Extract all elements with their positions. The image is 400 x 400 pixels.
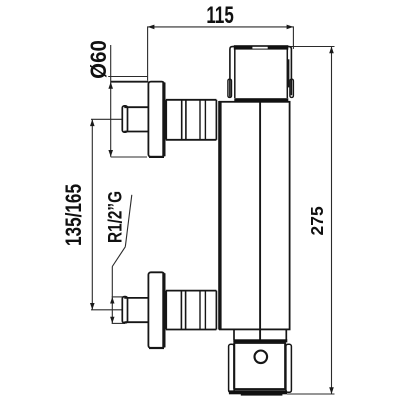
outlet bottom lip [241, 394, 283, 396]
lower inlet pipe stub top edge [124, 297, 148, 299]
upper union nut vertical line 2 [185, 100, 187, 140]
lower union nut top edge [166, 290, 217, 292]
upper union nut end line [215, 100, 217, 140]
upper union nut bottom edge [166, 139, 217, 141]
svg-text:135/165: 135/165 [62, 184, 86, 246]
dimension D60 bottom extension line [111, 156, 147, 158]
knob right side tab [290, 79, 294, 97]
dimension R1/2"G top arrow [110, 297, 114, 304]
dimension 115 right extension line [292, 26, 294, 49]
dimension D60 line [110, 45, 112, 157]
dimension D60 bottom arrow [108, 150, 113, 157]
upper wall flange thick right edge [162, 83, 165, 157]
lower union nut vertical line 4 [204, 291, 206, 330]
lower union nut vertical line 1 [180, 291, 182, 330]
neck middle line [259, 329, 261, 339]
lower inlet end cap [122, 297, 127, 323]
outlet circle port [254, 351, 267, 364]
dimension R1/2"G leader slanted segment beside text [125, 195, 132, 247]
knob outer shell (open at bottom) [230, 47, 292, 97]
dimension 135/165 text [62, 184, 86, 246]
knob inner left line [234, 49, 236, 98]
dimension 115 left extension line [147, 26, 149, 80]
outlet left side strip [229, 344, 235, 392]
lower union nut bottom edge [166, 329, 217, 331]
mixer body outline [220, 102, 290, 330]
lower wall flange [148, 272, 164, 348]
outlet right side strip [286, 344, 292, 392]
upper union nut vertical line 1 [181, 100, 183, 140]
dimension 275 top arrow [329, 47, 334, 54]
upper union nut vertical line 4 [204, 100, 206, 140]
dimension 115 right arrow [287, 25, 294, 30]
dimension 275 line [331, 47, 333, 395]
dimension R1/2"G leader vertical [111, 267, 113, 324]
outlet bottom dark band [229, 390, 287, 394]
upper inlet end cap [122, 106, 127, 132]
dimension R1/2"G bottom arrow [110, 317, 114, 324]
svg-text:115: 115 [206, 3, 233, 29]
upper union nut vertical line 3 [199, 100, 201, 140]
lower union nut vertical line 2 [185, 291, 187, 330]
dimension R1/2"G text [104, 191, 126, 243]
upper union nut chamfer band at flange [163, 99, 168, 141]
mixer body thick left edge [218, 101, 221, 330]
upper inlet pipe stub top edge [124, 106, 148, 108]
dimension 135/165 top arrow [90, 119, 95, 126]
dimension R1/2"G leader diagonal [112, 247, 125, 267]
dimension 115 line [148, 26, 294, 28]
knob inner right line [286, 49, 288, 98]
lower union nut chamfer band at flange [163, 290, 168, 331]
lower union nut vertical line 3 [199, 291, 201, 330]
dimension 115 left arrow [148, 25, 155, 30]
dimension D60 top arrow [108, 82, 113, 89]
knob bottom dark band [234, 98, 288, 102]
knob top band highlight slot [252, 47, 267, 49]
dimension 275 bottom extension line [287, 393, 335, 395]
outlet separator dark band [233, 339, 287, 342]
svg-text:Ø60: Ø60 [86, 40, 111, 79]
dimension R1/2"G top extension line [112, 296, 125, 298]
dimension D60 upper helper line [108, 76, 147, 78]
dimension 135/165 bottom extension line [91, 309, 123, 311]
dimension 135/165 bottom arrow [90, 303, 95, 310]
outlet block [234, 343, 285, 389]
dimension 115 text [206, 3, 233, 29]
mixer body middle edge line [259, 102, 261, 330]
upper wall flange thick bottom edge [149, 156, 164, 158]
upper wall flange [148, 82, 164, 157]
knob top dark band [234, 45, 288, 49]
svg-text:275: 275 [307, 206, 327, 235]
knob right shading bar [287, 59, 289, 87]
svg-text:R1/2”G: R1/2”G [104, 191, 126, 243]
neck left line [233, 329, 235, 339]
upper inlet pipe stub bottom edge [124, 131, 148, 133]
dimension 275 top extension line [288, 46, 335, 48]
dimension 135/165 top extension line [91, 118, 123, 120]
dimension 275 bottom arrow [329, 387, 334, 394]
lower inlet pipe stub bottom edge [124, 321, 148, 323]
dimension D60 text [86, 40, 111, 79]
dimension R1/2"G bottom extension line [112, 322, 125, 324]
knob left side tab [228, 79, 232, 97]
neck right line [285, 329, 287, 339]
dimension 135/165 line [91, 119, 93, 309]
lower union nut end line [215, 291, 217, 330]
dimension D60 top extension (flange top edge extended) [111, 81, 149, 83]
lower wall flange thick bottom edge [149, 347, 164, 349]
upper union nut top edge [166, 99, 217, 101]
lower wall flange thick right edge [162, 273, 165, 347]
dimension 275 text [307, 206, 327, 235]
